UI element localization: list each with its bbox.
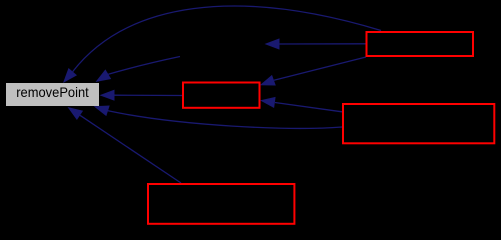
- svg-text:removePoint: removePoint: [16, 85, 89, 100]
